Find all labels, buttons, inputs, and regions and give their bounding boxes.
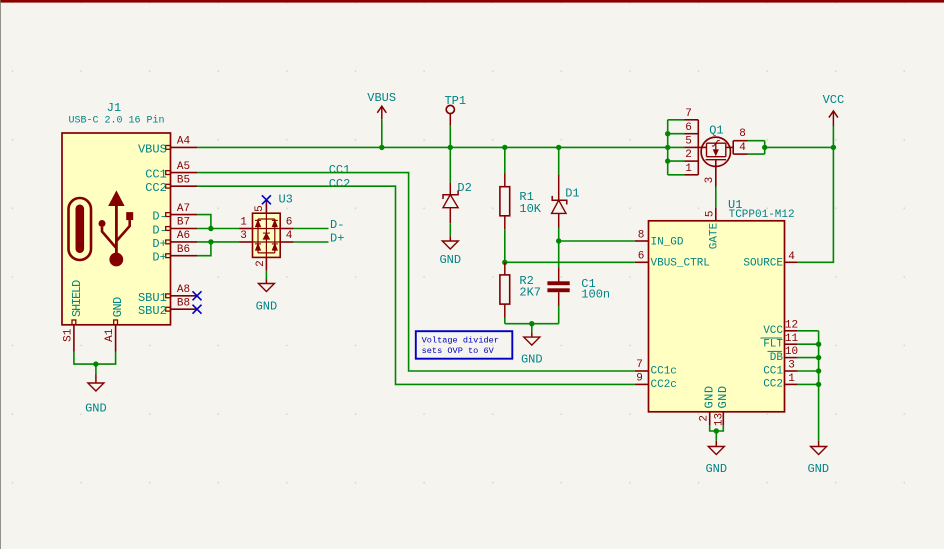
wire U3 pin 6 stub bbox=[294, 228, 329, 230]
svg-text:A1: A1 bbox=[104, 328, 116, 342]
svg-text:2: 2 bbox=[685, 149, 692, 161]
wire D2 to gnd bbox=[449, 223, 451, 236]
U3 pin 5 bbox=[265, 200, 267, 213]
U1 pin 3 (CC1) bbox=[785, 370, 798, 372]
svg-text:FLT: FLT bbox=[763, 339, 783, 351]
svg-text:B8: B8 bbox=[177, 297, 190, 309]
svg-text:5: 5 bbox=[254, 205, 266, 212]
svg-text:10K: 10K bbox=[519, 202, 541, 216]
J1 pin A4 (VBUS) bbox=[166, 146, 171, 150]
ground bbox=[265, 280, 267, 284]
wire D- B7 to U3 pin 1 bbox=[197, 228, 239, 230]
svg-text:CC1: CC1 bbox=[329, 163, 351, 177]
Q1 pin 2 bbox=[685, 160, 699, 162]
svg-text:8: 8 bbox=[638, 229, 645, 241]
wire Q1 source join bbox=[764, 141, 766, 154]
wire U3 pin2 to gnd bbox=[265, 271, 267, 280]
svg-text:sets OVP to 6V: sets OVP to 6V bbox=[422, 346, 495, 356]
svg-text:SBU1: SBU1 bbox=[138, 291, 167, 305]
U3 pin 3 bbox=[239, 241, 252, 243]
svg-text:2: 2 bbox=[699, 415, 711, 422]
junction D+ bbox=[208, 239, 213, 244]
U3 pin 1 bbox=[239, 228, 252, 230]
wire U1 gnd pins join bbox=[710, 425, 724, 431]
text note Voltage divider sets OVP to 6V bbox=[416, 331, 513, 359]
junction J1 gnd bbox=[93, 361, 98, 366]
wire Q1 pin4 bbox=[748, 153, 765, 155]
wire VCC stem bbox=[832, 126, 834, 147]
svg-text:A6: A6 bbox=[177, 230, 190, 242]
wire C1 to gnd rail bbox=[558, 306, 560, 324]
ic U1 body bbox=[649, 221, 785, 412]
wire VBUS into pin5 row bbox=[668, 146, 685, 148]
svg-text:1: 1 bbox=[788, 373, 795, 385]
U1 pin 1 (CC2) bbox=[785, 383, 798, 385]
svg-text:A4: A4 bbox=[177, 136, 191, 148]
wire U1 pin 3 to gnd bus bbox=[798, 370, 819, 372]
svg-text:J1: J1 bbox=[107, 101, 121, 115]
connector J1 body bbox=[62, 133, 171, 325]
svg-text:D-: D- bbox=[152, 224, 166, 238]
capacitor C1 bbox=[558, 268, 560, 282]
Q1 source bar bbox=[732, 141, 734, 154]
J1 pin B5 (CC2) bbox=[166, 184, 171, 188]
svg-text:D+: D+ bbox=[330, 232, 344, 246]
svg-text:Voltage divider: Voltage divider bbox=[422, 335, 499, 345]
wire gnd rail R2-C1 bbox=[505, 323, 559, 325]
wire Q1 gate to U1 bbox=[715, 187, 717, 208]
junction D- bbox=[208, 226, 213, 231]
svg-text:CC1: CC1 bbox=[763, 365, 783, 377]
wire R1 to VBUS_CTRL bbox=[504, 229, 506, 262]
U1 pin 6 (VBUS_CTRL) bbox=[635, 261, 649, 263]
svg-text:13: 13 bbox=[713, 413, 725, 426]
wire VBUS flag stem bbox=[381, 119, 383, 147]
junction VBUS/D1 bbox=[556, 145, 561, 150]
svg-text:CC2c: CC2c bbox=[651, 379, 677, 391]
svg-text:12: 12 bbox=[785, 319, 798, 331]
svg-text:GND: GND bbox=[521, 352, 543, 366]
svg-text:CC2: CC2 bbox=[329, 177, 351, 191]
wire Q1 source to VCC bbox=[765, 146, 834, 148]
svg-text:GATE: GATE bbox=[708, 222, 720, 249]
J1 pin A6 (D+) bbox=[166, 240, 171, 244]
junction VCC bbox=[831, 145, 836, 150]
junction Q1 drain rows bbox=[665, 131, 670, 136]
junction Q1 source bbox=[762, 145, 767, 150]
svg-text:CC2: CC2 bbox=[763, 379, 783, 391]
svg-text:4: 4 bbox=[788, 251, 795, 263]
junction gnd rail bbox=[529, 321, 534, 326]
J1 pin B7 (D-) bbox=[166, 227, 171, 231]
svg-text:CC1c: CC1c bbox=[651, 366, 677, 378]
svg-text:U3: U3 bbox=[278, 193, 292, 207]
ground bbox=[95, 375, 97, 384]
Q1 pin 1 bbox=[685, 174, 699, 176]
svg-text:SHIELD: SHIELD bbox=[70, 280, 84, 317]
svg-text:D-: D- bbox=[152, 210, 166, 224]
svg-text:SBU2: SBU2 bbox=[138, 304, 167, 318]
Q1 pin 8 bbox=[733, 140, 747, 142]
J1 pin A5 (CC1) bbox=[166, 171, 171, 175]
U1 pin 9 (CC2c) bbox=[635, 383, 649, 385]
wire Q1 drain stub bbox=[668, 119, 685, 121]
svg-text:B7: B7 bbox=[177, 217, 190, 229]
svg-text:2K7: 2K7 bbox=[519, 285, 541, 299]
wire SOURCE to VCC bbox=[798, 147, 834, 262]
svg-text:Q1: Q1 bbox=[709, 124, 723, 138]
wire Q1 drain stub bbox=[668, 133, 685, 135]
wire right gnd bus bbox=[818, 331, 820, 441]
J1 pin A8 (SBU1) bbox=[166, 294, 171, 298]
U1 pin 2 (GND) bbox=[709, 412, 711, 425]
svg-text:6: 6 bbox=[685, 122, 692, 134]
wire U3 pin 4 stub bbox=[294, 241, 329, 243]
svg-text:7: 7 bbox=[685, 108, 692, 120]
svg-text:8: 8 bbox=[739, 128, 746, 140]
wire Q1 pin8 bbox=[748, 140, 765, 142]
J1 pin A7 (D-) bbox=[166, 213, 171, 217]
svg-text:1: 1 bbox=[685, 163, 692, 175]
resistor R1 bbox=[504, 174, 506, 187]
svg-text:DB: DB bbox=[770, 352, 784, 364]
svg-text:4: 4 bbox=[286, 230, 293, 242]
U1 pin 7 (CC1c) bbox=[635, 370, 649, 372]
wire Q1 drain stub bbox=[668, 174, 685, 176]
svg-text:2: 2 bbox=[255, 260, 267, 267]
svg-text:GND: GND bbox=[439, 253, 461, 267]
wire D- A7 jog bbox=[197, 215, 211, 229]
Q1 gate pin 3 bbox=[715, 160, 717, 187]
svg-text:GND: GND bbox=[702, 385, 716, 408]
svg-text:D-: D- bbox=[330, 218, 344, 232]
resistor R2 bbox=[504, 262, 506, 275]
svg-text:VCC: VCC bbox=[823, 93, 845, 107]
wire D+ A6 to U3 pin 3 bbox=[197, 241, 239, 243]
svg-text:A8: A8 bbox=[177, 284, 190, 296]
U1 pin 11 (FLT) bbox=[785, 343, 798, 345]
wire J1 gnd stem bbox=[95, 364, 97, 374]
svg-text:GND: GND bbox=[256, 300, 278, 314]
U1 pin 8 (IN_GD) bbox=[635, 240, 649, 242]
J1 pin B6 (D+) bbox=[166, 254, 171, 258]
wire VBUS to D2 bbox=[449, 147, 451, 182]
U1 pin 13 (GND) bbox=[722, 412, 724, 425]
svg-text:CC2: CC2 bbox=[145, 181, 167, 195]
U1 pin 4 (SOURCE) bbox=[785, 261, 798, 263]
U3 pin 6 bbox=[280, 228, 293, 230]
junction U1 gnd bbox=[714, 428, 719, 433]
svg-text:5: 5 bbox=[685, 136, 692, 148]
svg-text:6: 6 bbox=[286, 217, 293, 229]
svg-text:5: 5 bbox=[705, 210, 717, 217]
svg-text:3: 3 bbox=[240, 230, 247, 242]
svg-text:TCPP01-M12: TCPP01-M12 bbox=[729, 209, 795, 221]
ic U3 body bbox=[253, 213, 281, 257]
no-connect SBU2 bbox=[193, 305, 202, 314]
wire VBUS rail bbox=[197, 146, 668, 148]
svg-text:VBUS: VBUS bbox=[138, 142, 167, 156]
junction D1/C1/IN_GD bbox=[556, 238, 561, 243]
U3 internals bbox=[257, 219, 259, 253]
wire VBUS to R1 bbox=[504, 147, 506, 173]
Q1 pin 5 bbox=[685, 146, 699, 148]
wire D1 to IN_GD node bbox=[558, 228, 560, 269]
wire Q1 drain stub bbox=[668, 160, 685, 162]
junction VBUS flag bbox=[379, 145, 384, 150]
svg-text:D1: D1 bbox=[565, 186, 579, 200]
svg-text:4: 4 bbox=[739, 142, 746, 154]
Q1 pin 7 bbox=[685, 119, 699, 121]
svg-text:6: 6 bbox=[638, 251, 645, 263]
svg-text:VBUS_CTRL: VBUS_CTRL bbox=[651, 258, 710, 270]
svg-text:GND: GND bbox=[807, 462, 829, 476]
junction right gnd bus bbox=[816, 342, 821, 347]
wire Q1 drain bus bbox=[667, 120, 669, 175]
svg-text:11: 11 bbox=[785, 333, 799, 345]
svg-text:D+: D+ bbox=[152, 251, 166, 265]
ground bbox=[715, 441, 717, 447]
J1 pin A1 (GND) bbox=[114, 320, 118, 325]
J1 USB logo bbox=[69, 198, 92, 260]
svg-text:B6: B6 bbox=[177, 244, 190, 256]
wire U1 pin 1 to gnd bus bbox=[798, 383, 819, 385]
J1 pin S1 (SHIELD) bbox=[72, 320, 76, 325]
svg-text:VCC: VCC bbox=[763, 325, 783, 337]
svg-text:A5: A5 bbox=[177, 161, 190, 173]
svg-text:7: 7 bbox=[636, 359, 643, 371]
wire J1 shield to gnd bbox=[74, 352, 116, 365]
svg-text:CC1: CC1 bbox=[145, 168, 167, 182]
ground bbox=[449, 236, 451, 241]
svg-text:S1: S1 bbox=[62, 328, 74, 342]
svg-text:USB-C 2.0 16 Pin: USB-C 2.0 16 Pin bbox=[68, 115, 164, 127]
Q1 pin bar bbox=[697, 120, 699, 175]
Q1 pin 4 bbox=[733, 153, 747, 155]
wire TP1 to VBUS bbox=[449, 126, 451, 148]
svg-text:D+: D+ bbox=[152, 237, 166, 251]
wire divider gnd stem bbox=[531, 324, 533, 333]
svg-text:GND: GND bbox=[85, 401, 107, 415]
svg-text:10: 10 bbox=[785, 346, 798, 358]
wire U1 gnd stem bbox=[715, 431, 717, 441]
U3 pin 4 bbox=[280, 241, 293, 243]
wire VBUS to D1 bbox=[558, 147, 560, 174]
wire IN_GD node to U1 pin 8 bbox=[559, 240, 635, 242]
wire CC1 bbox=[197, 173, 635, 371]
wire U1 pin 10 to gnd bus bbox=[798, 357, 819, 359]
junction R1/R2/VBUS_CTRL bbox=[502, 260, 507, 265]
U3 pin 2 bbox=[265, 257, 267, 270]
U1 pin 5 (GATE) bbox=[715, 208, 717, 221]
svg-text:100n: 100n bbox=[581, 288, 610, 302]
svg-text:1: 1 bbox=[240, 217, 247, 229]
ground bbox=[531, 332, 533, 337]
U1 pin 12 (VCC) bbox=[785, 330, 798, 332]
junction VBUS/R1 bbox=[502, 145, 507, 150]
svg-text:D2: D2 bbox=[457, 181, 471, 195]
svg-text:GND: GND bbox=[716, 385, 730, 408]
svg-text:A7: A7 bbox=[177, 203, 190, 215]
svg-text:3: 3 bbox=[788, 360, 795, 372]
svg-text:9: 9 bbox=[636, 373, 643, 385]
wire D+ B6 jog bbox=[197, 242, 211, 256]
wire VBUS_CTRL to U1 pin 6 bbox=[505, 261, 635, 263]
svg-text:VBUS: VBUS bbox=[367, 91, 396, 105]
ground right bbox=[818, 441, 820, 447]
wire CC2 bbox=[197, 186, 635, 384]
Q1 pin 6 bbox=[685, 133, 699, 135]
svg-text:GND: GND bbox=[111, 297, 125, 317]
no-connect SBU1 bbox=[193, 291, 202, 300]
wire U1 pin 12 to gnd bus bbox=[798, 330, 819, 332]
wire U1 pin 11 to gnd bus bbox=[798, 343, 819, 345]
svg-text:SOURCE: SOURCE bbox=[743, 257, 783, 269]
J1 pin B8 (SBU2) bbox=[166, 307, 171, 311]
wire R2 to gnd rail bbox=[504, 318, 506, 324]
junction TP1/D2 bbox=[448, 145, 453, 150]
U1 pin 10 (DB) bbox=[785, 357, 798, 359]
svg-text:IN_GD: IN_GD bbox=[651, 237, 684, 249]
svg-text:GND: GND bbox=[705, 462, 727, 476]
svg-text:3: 3 bbox=[704, 177, 716, 184]
svg-text:B5: B5 bbox=[177, 174, 190, 186]
no-connect U3 pin 5 bbox=[262, 195, 271, 204]
